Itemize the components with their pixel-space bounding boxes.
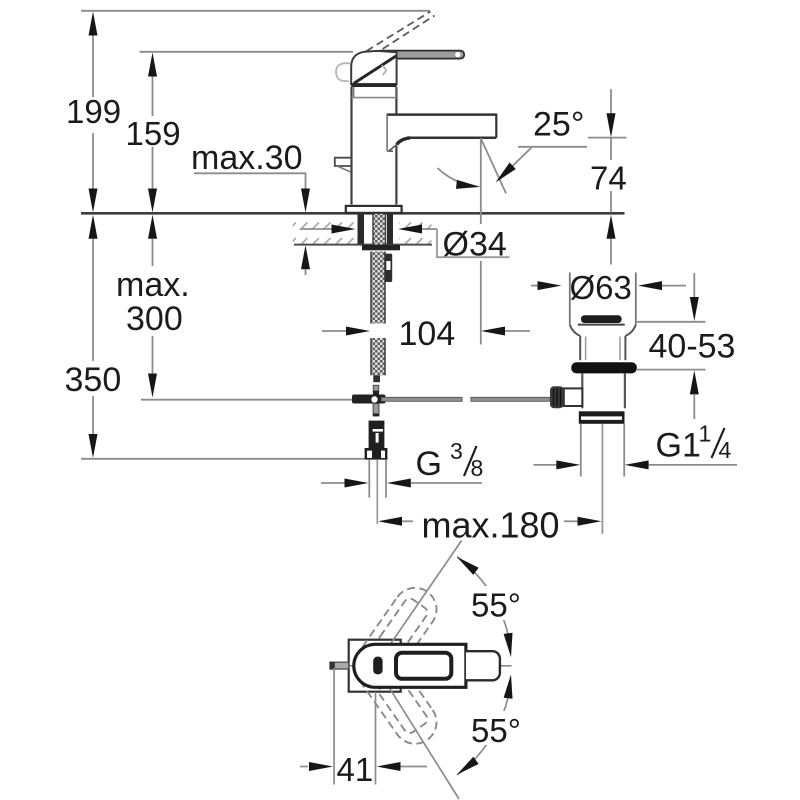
- svg-text:104: 104: [399, 315, 456, 353]
- 55 deg label lower: [468, 711, 525, 745]
- svg-text:40-53: 40-53: [649, 328, 736, 366]
- plan view spout: [466, 651, 500, 680]
- swivel arc arrow: [438, 168, 475, 186]
- dimension 350: [89, 215, 98, 239]
- dimension max.180: [378, 517, 402, 526]
- faucet body: [350, 87, 352, 205]
- drain plug cap: [581, 315, 622, 323]
- reference line top of lever (159): [140, 51, 354, 53]
- supply hose lower: [371, 338, 385, 375]
- plan view lever capsule: [354, 644, 466, 687]
- plan view lever window: [396, 653, 451, 679]
- dimension max.300: [148, 215, 157, 239]
- svg-text:4: 4: [719, 437, 732, 463]
- svg-text:max.30: max.30: [191, 139, 303, 177]
- drain centerline: [601, 424, 603, 534]
- svg-text:74: 74: [590, 159, 627, 196]
- mounting shank in deck: [373, 214, 386, 245]
- dimension 40-53: [637, 321, 706, 323]
- plan view 55 deg arc lower: [457, 682, 511, 775]
- dimension 199: [92, 35, 94, 97]
- plan view 55 deg arc upper: [457, 557, 511, 650]
- plan view base square: [349, 640, 401, 692]
- hose end fitting: [373, 375, 380, 382]
- faucet base flange: [346, 206, 402, 213]
- 25 deg stream vertical reference: [480, 138, 482, 224]
- svg-text:199: 199: [66, 93, 121, 130]
- pop-up rod upper clamp: [385, 254, 393, 282]
- countertop deck line: [81, 212, 625, 215]
- deck underside line: [294, 244, 432, 246]
- dimension 104: [322, 330, 346, 332]
- svg-text:G: G: [416, 445, 442, 483]
- dimension diameter 63: [531, 285, 538, 287]
- 25 deg tilted stream line: [481, 138, 506, 193]
- deck hatching right: [399, 215, 432, 244]
- plan view lever dot: [373, 657, 382, 675]
- plan view horizontal centerline: [330, 665, 512, 667]
- svg-text:G1: G1: [656, 427, 701, 465]
- drain upper cup witness lines: [569, 273, 571, 326]
- svg-text:55°: 55°: [471, 712, 521, 749]
- dimension 74: [588, 137, 627, 139]
- svg-text:max.180: max.180: [422, 505, 560, 546]
- supply pipe extension lines: [368, 460, 370, 498]
- svg-text:350: 350: [65, 361, 122, 399]
- faucet lever handle bar: [377, 51, 465, 59]
- dimension 41: [333, 668, 335, 785]
- reference line top of raised lever (199): [81, 10, 430, 12]
- svg-text:8: 8: [471, 455, 484, 481]
- deck hatching left: [293, 215, 357, 244]
- svg-text:Ø34: Ø34: [443, 226, 507, 264]
- plan view rotation centerline upper: [376, 541, 462, 666]
- G3/8 nut: [365, 448, 388, 460]
- reference line hose end (350): [81, 458, 365, 460]
- faucet handle base: [351, 51, 396, 84]
- pop-up rod cross joint: [373, 385, 378, 391]
- drain coupling nut: [579, 411, 625, 424]
- svg-text:55°: 55°: [471, 587, 521, 624]
- pop-up rod stub on body: [335, 158, 352, 166]
- svg-text:300: 300: [126, 300, 183, 338]
- drain neck: [570, 325, 580, 336]
- svg-text:3: 3: [450, 438, 463, 464]
- faucet raised lever (dashed): [367, 12, 435, 56]
- faucet spout: [387, 113, 497, 116]
- svg-text:Ø63: Ø63: [570, 269, 632, 306]
- drain lever knob: [550, 386, 564, 408]
- svg-text:41: 41: [337, 751, 374, 788]
- dimension 159: [152, 76, 154, 116]
- plan view pop-up rod stub: [330, 662, 349, 669]
- plan view rotation centerline lower: [376, 666, 460, 799]
- mounting locknut: [362, 245, 400, 251]
- svg-text:1: 1: [699, 421, 712, 447]
- handle/body joint band: [351, 83, 396, 87]
- 55 deg label upper: [468, 586, 525, 620]
- supply centerline: [376, 460, 378, 524]
- dimension diameter 34: [301, 228, 332, 230]
- horizontal pop-up rod: [381, 397, 462, 401]
- supply adapter: [369, 421, 385, 448]
- drain body: [581, 373, 583, 408]
- plan view lever rotated +55 (dashed): [345, 636, 445, 752]
- drain tail extension lines: [580, 424, 582, 477]
- svg-text:max.: max.: [116, 266, 190, 304]
- svg-text:159: 159: [126, 115, 181, 152]
- drain seal ring: [571, 362, 637, 373]
- reference line pop-up rod (max.300): [141, 399, 352, 401]
- plan view lever rotated -55 (dashed): [345, 579, 445, 695]
- drain lever block: [564, 388, 583, 406]
- svg-text:25°: 25°: [533, 105, 584, 143]
- supply hose upper: [371, 252, 385, 324]
